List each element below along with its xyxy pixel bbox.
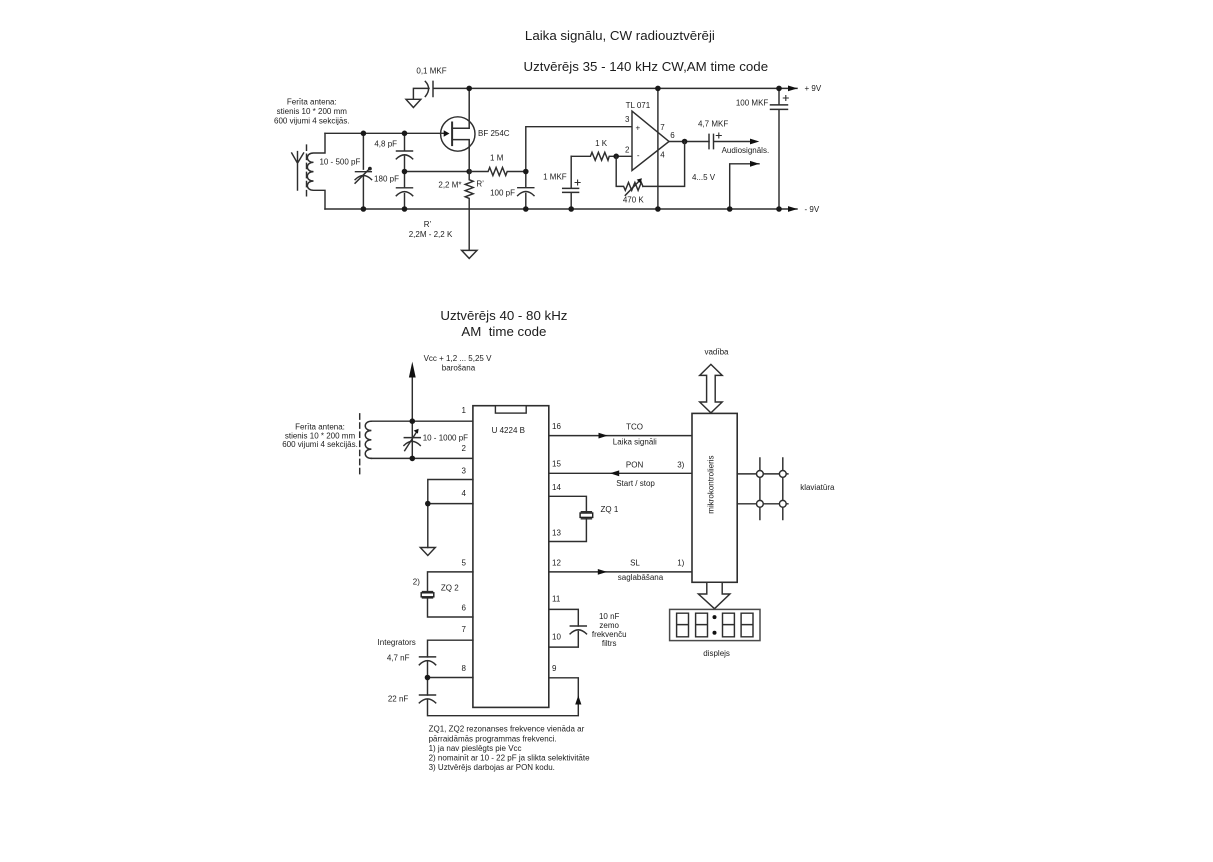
svg-text:stienis 10 * 200 mm: stienis 10 * 200 mm: [277, 107, 348, 116]
plus of 100 MKF: [783, 96, 788, 101]
svg-text:1: 1: [462, 406, 467, 415]
crystal ZQ2: [423, 592, 433, 598]
svg-text:TL 071: TL 071: [626, 101, 651, 110]
arrow -9V: [788, 206, 798, 212]
svg-text:ZQ 1: ZQ 1: [601, 505, 619, 514]
svg-text:saglabāšana: saglabāšana: [618, 573, 664, 582]
resistor R' 2,2M vertical: [465, 172, 473, 210]
wire pin 5 / crystal ZQ2 / wire pin 6: [428, 572, 473, 617]
wire: pin 1: [371, 420, 473, 422]
svg-text:2,2 M*: 2,2 M*: [438, 180, 461, 189]
feedback wire from output: [643, 142, 685, 187]
labels 10 nF filter: [592, 612, 627, 648]
svg-text:6: 6: [670, 131, 675, 140]
svg-text:AM time code: AM time code: [461, 324, 546, 339]
svg-text:9: 9: [552, 664, 557, 673]
varcap adjust arrow: [405, 431, 418, 451]
svg-text:3): 3): [677, 460, 684, 469]
display arrow down: [698, 582, 730, 608]
svg-text:1): 1): [677, 558, 684, 567]
7-seg digit 2: [696, 613, 708, 637]
wire: tank top: [325, 132, 444, 134]
variable capacitor C 10-500 pF: [355, 133, 372, 209]
svg-text:10: 10: [552, 632, 561, 641]
keyboard contact circles: [757, 471, 787, 508]
Vcc supply arrow: [411, 377, 413, 459]
vadiba double arrow: [700, 364, 723, 413]
varcap adjust arrow with dot: [355, 170, 369, 184]
svg-text:12: 12: [552, 558, 561, 567]
svg-text:5: 5: [462, 558, 467, 567]
svg-text:pārraidāmās programmas frekven: pārraidāmās programmas frekvenci.: [429, 734, 557, 743]
note: ferrite antenna description (top circuit): [274, 98, 350, 126]
colon dots: [713, 615, 717, 619]
svg-text:10 nF: 10 nF: [599, 612, 620, 621]
7-seg digit 3: [723, 613, 735, 637]
wire: pin 2: [371, 457, 473, 459]
7-seg digit 4: [741, 613, 753, 637]
footnotes: [429, 725, 591, 773]
keyboard matrix wires: [737, 458, 788, 520]
svg-text:600 vijumi 4 sekcijās.: 600 vijumi 4 sekcijās.: [274, 116, 350, 125]
label Vcc + 1,2 ... 5,25 V: [424, 354, 492, 373]
wire pin 11 / 10nF cap / wire pin 10: [549, 609, 579, 647]
wire: top rail +9V: [469, 87, 797, 89]
wire: bottom rail -9V: [325, 208, 797, 210]
svg-text:4...5 V: 4...5 V: [692, 173, 716, 182]
svg-text:zemo: zemo: [599, 621, 619, 630]
svg-text:Integrators: Integrators: [378, 638, 416, 647]
op-amp U1 TL071: [632, 111, 669, 170]
note: ferrite antenna description (bottom circuit): [282, 423, 358, 450]
capacitor 180 pF: [396, 172, 412, 210]
svg-text:100 MKF: 100 MKF: [736, 98, 769, 107]
svg-text:7: 7: [462, 625, 467, 634]
svg-text:Uztvērējs 35 - 140 kHz CW,AM t: Uztvērējs 35 - 140 kHz CW,AM time code: [524, 59, 769, 74]
ferrite rod dashed line (bottom circuit): [359, 414, 361, 474]
capacitor 22 nF: [419, 695, 435, 703]
capacitor 100 pF: [518, 172, 534, 210]
svg-text:22 nF: 22 nF: [388, 694, 409, 703]
svg-text:180 pF: 180 pF: [374, 174, 399, 183]
wire: second output to -9V rail: [730, 164, 759, 209]
variable capacitor 10-1000 pF: [404, 438, 420, 446]
svg-text:1) ja nav pieslēgts pie Vcc: 1) ja nav pieslēgts pie Vcc: [429, 744, 522, 753]
IC U1 U4224B box: [473, 406, 549, 708]
svg-text:1 MKF: 1 MKF: [543, 173, 567, 182]
inductor L1 coil: [307, 133, 325, 209]
output wire pin6: [669, 141, 709, 143]
ferrite rod dashed line (top circuit): [306, 145, 308, 198]
svg-text:6: 6: [462, 604, 467, 613]
svg-text:Laika signāli: Laika signāli: [613, 438, 657, 447]
svg-text:- 9V: - 9V: [805, 205, 820, 214]
svg-text:16: 16: [552, 422, 561, 431]
capacitor 4,7 MKF: [709, 134, 753, 148]
inductor L2 coil: [365, 421, 371, 458]
arrow +9V: [788, 86, 798, 92]
svg-text:SL: SL: [630, 558, 640, 567]
svg-text:2): 2): [413, 578, 420, 587]
470K adjust arrow: [625, 180, 640, 195]
7-seg digit 1: [677, 613, 689, 637]
wire + resistor 1K: [571, 152, 632, 160]
microcontroller box: [692, 413, 737, 582]
wire pin 7 / integrator caps: [428, 640, 579, 716]
svg-text:0,1 MKF: 0,1 MKF: [416, 67, 446, 76]
svg-text:+ 9V: + 9V: [805, 84, 822, 93]
svg-text:ZQ1, ZQ2 rezonanses frekvence: ZQ1, ZQ2 rezonanses frekvence vienāda ar: [429, 725, 585, 734]
svg-text:BF 254C: BF 254C: [478, 129, 510, 138]
arrow audiosignal: [750, 139, 759, 145]
svg-text:Ferīta antena:: Ferīta antena:: [287, 98, 337, 107]
svg-text:ZQ 2: ZQ 2: [441, 583, 459, 592]
svg-text:15: 15: [552, 460, 561, 469]
plus of 4,7 MKF: [716, 133, 721, 138]
displejs box: [670, 609, 760, 640]
svg-text:Laika signālu, CW radiouztvērē: Laika signālu, CW radiouztvērēji: [525, 28, 715, 43]
svg-text:Audiosignāls.: Audiosignāls.: [722, 146, 770, 155]
svg-text:vadība: vadība: [704, 347, 729, 356]
capacitor 4,7 nF: [419, 657, 435, 665]
svg-text:TCO: TCO: [626, 422, 643, 431]
ground (bottom circuit): [420, 548, 435, 556]
svg-text:2) nomainīt ar 10 - 22 pF ja s: 2) nomainīt ar 10 - 22 pF ja slikta sele…: [429, 754, 591, 763]
svg-text:2: 2: [462, 444, 467, 453]
svg-text:8: 8: [462, 664, 467, 673]
svg-text:R’: R’: [424, 220, 432, 229]
capacitor 10 nF: [570, 626, 586, 634]
svg-text:1 M: 1 M: [490, 154, 504, 163]
svg-text:10 - 1000 pF: 10 - 1000 pF: [423, 434, 468, 443]
svg-text:3) Uztvērējs darbojas ar PON k: 3) Uztvērējs darbojas ar PON kodu.: [429, 763, 555, 772]
transistor Q1 BF 254C (JFET): [441, 117, 475, 151]
junction dots tank: [361, 131, 472, 212]
svg-text:mikrokontrolieris: mikrokontrolieris: [707, 455, 716, 513]
wire pin 14 / crystal ZQ1 / wire pin 13: [549, 496, 587, 541]
wire pin 4: [428, 503, 473, 505]
svg-text:600 vijumi 4 sekcijās.: 600 vijumi 4 sekcijās.: [282, 440, 358, 449]
svg-text:Ferīta antena:: Ferīta antena:: [295, 423, 345, 432]
svg-text:4,8 pF: 4,8 pF: [374, 139, 397, 148]
wire pin 3 to ground: [428, 480, 473, 548]
capacitor 4,8 pF: [396, 133, 412, 171]
crystal ZQ1: [581, 512, 591, 519]
IC notch: [495, 406, 526, 413]
svg-text:4: 4: [462, 489, 467, 498]
svg-text:10 - 500 pF: 10 - 500 pF: [319, 158, 360, 167]
svg-text:100 pF: 100 pF: [490, 188, 515, 197]
left pin numbers: [462, 406, 467, 673]
antenna symbol: [292, 152, 304, 190]
wire pin 16 TCO: [549, 435, 692, 437]
svg-text:4: 4: [660, 151, 665, 160]
wire pin 9 with up arrow: [549, 678, 579, 697]
svg-text:Vcc + 1,2 ... 5,25 V: Vcc + 1,2 ... 5,25 V: [424, 354, 492, 363]
capacitor 0,1 MKF with ground: [406, 81, 469, 107]
svg-text:Uztvērējs 40 - 80 kHz: Uztvērējs 40 - 80 kHz: [440, 308, 567, 323]
svg-text:2: 2: [625, 146, 630, 155]
svg-text:13: 13: [552, 528, 561, 537]
svg-text:4,7 nF: 4,7 nF: [387, 653, 410, 662]
svg-text:-: -: [637, 151, 640, 160]
svg-text:7: 7: [660, 123, 665, 132]
label R' / 2,2M - 2,2 K: [409, 220, 453, 239]
capacitor 1 MKF polarized: [563, 156, 579, 209]
wire: riser to op-amp pin3: [526, 127, 632, 172]
node wire: cap midpoint to FET source: [405, 171, 470, 173]
svg-text:2,2M - 2,2 K: 2,2M - 2,2 K: [409, 230, 453, 239]
svg-text:frekvenču: frekvenču: [592, 630, 627, 639]
svg-text:+: +: [635, 123, 640, 132]
svg-text:R’: R’: [476, 180, 484, 189]
capacitor 100 MKF: [771, 88, 788, 209]
svg-text:Start / stop: Start / stop: [616, 479, 655, 488]
svg-text:klaviatūra: klaviatūra: [800, 483, 835, 492]
svg-text:3: 3: [625, 115, 630, 124]
svg-text:14: 14: [552, 483, 561, 492]
ground under R': [462, 209, 477, 258]
svg-text:1 K: 1 K: [595, 139, 608, 148]
resistor 470K: [616, 156, 643, 190]
svg-text:470 K: 470 K: [623, 196, 645, 205]
svg-text:PON: PON: [626, 460, 644, 469]
svg-text:4,7 MKF: 4,7 MKF: [698, 120, 728, 129]
svg-text:U 4224 B: U 4224 B: [492, 426, 525, 435]
right pin numbers: [552, 422, 561, 673]
opamp vertical supply line pins 7/4: [657, 88, 659, 209]
svg-text:displejs: displejs: [703, 649, 730, 658]
svg-text:3: 3: [462, 467, 467, 476]
svg-text:barošana: barošana: [442, 364, 476, 373]
plus of 1 MKF: [575, 180, 580, 185]
labels integrator: [378, 638, 416, 704]
resistor 1M: [469, 168, 526, 176]
wire pin 12 SL: [549, 571, 692, 573]
svg-text:11: 11: [552, 595, 561, 604]
svg-text:filtrs: filtrs: [602, 639, 617, 648]
opamp +/-: [625, 115, 675, 160]
wire pin 15 PON: [549, 472, 692, 474]
